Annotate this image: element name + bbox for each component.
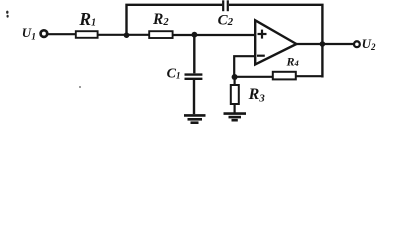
svg-text:C2: C2 (218, 12, 234, 28)
svg-text:U1: U1 (22, 25, 36, 42)
svg-text:R4: R4 (286, 54, 299, 68)
svg-text:R1: R1 (78, 9, 96, 29)
svg-text:U2: U2 (362, 36, 376, 52)
svg-text:R3: R3 (248, 86, 266, 105)
svg-text:C1: C1 (167, 66, 181, 81)
svg-text:R2: R2 (152, 11, 169, 28)
